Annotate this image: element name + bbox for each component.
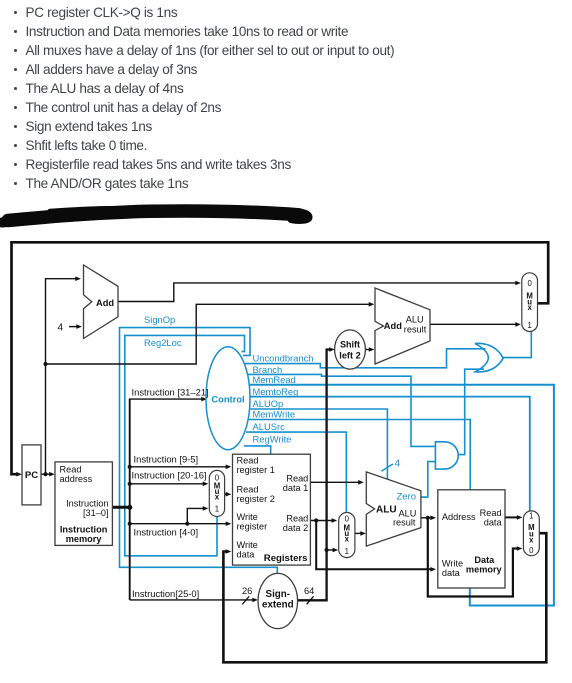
svg-text:ALU: ALU — [376, 504, 397, 515]
svg-text:result: result — [404, 324, 427, 334]
svg-text:1: 1 — [529, 512, 533, 521]
wire ALU result to Data memory Address — [421, 517, 431, 519]
svg-text:memory: memory — [66, 534, 103, 544]
adder Add (PC+4) — [84, 265, 119, 339]
control unit — [206, 347, 250, 450]
svg-text:Read: Read — [237, 484, 259, 494]
wire Instruction[25-0] to Sign-extend — [130, 599, 254, 601]
mux ALUSrc — [339, 513, 355, 558]
instruction memory — [55, 462, 112, 546]
svg-text:Registers: Registers — [264, 553, 308, 564]
register PC — [22, 445, 41, 505]
svg-text:Read: Read — [60, 464, 82, 474]
wire Uncondbranch to OR gate — [242, 349, 486, 368]
svg-text:Read: Read — [480, 508, 502, 518]
svg-text:Write: Write — [237, 512, 258, 522]
svg-text:extend: extend — [262, 600, 294, 611]
svg-text:register 2: register 2 — [237, 494, 275, 504]
register file Registers — [233, 454, 311, 565]
wire PC feedback from top mux around top to PC — [12, 242, 549, 474]
wire bottom mux output wrap to Write data of Registers — [223, 533, 546, 662]
wire Read data 2 to ALU mux input 0 — [310, 520, 332, 522]
svg-text:MemRead: MemRead — [253, 374, 296, 385]
svg-text:Read: Read — [286, 473, 308, 483]
sign extend — [258, 573, 298, 628]
wire PC to Read address — [41, 473, 50, 475]
svg-text:data: data — [237, 550, 256, 560]
svg-text:register: register — [237, 522, 268, 532]
svg-text:Write: Write — [442, 558, 463, 568]
mux Reg2Loc (register input) — [209, 470, 224, 516]
wire Zero to AND gate input — [421, 462, 435, 498]
svg-text:Instruction[25-0]: Instruction[25-0] — [132, 588, 199, 599]
wire Shift left 2 output to branch adder — [365, 349, 370, 351]
svg-text:26: 26 — [242, 586, 252, 596]
wire branch adder result to top mux input 1 — [430, 323, 516, 325]
wire Reg2Loc from Control to register mux select — [125, 335, 245, 555]
svg-text:0: 0 — [527, 279, 532, 288]
svg-text:Zero: Zero — [397, 492, 417, 503]
svg-text:register 1: register 1 — [237, 465, 275, 475]
svg-text:Instruction: Instruction — [60, 525, 108, 535]
bus slash 26 — [242, 596, 249, 604]
wire Instruction memory output — [112, 506, 129, 509]
svg-text:0: 0 — [345, 515, 350, 524]
adder Add (branch target) — [375, 288, 430, 364]
svg-text:Instruction [31–21]: Instruction [31–21] — [132, 387, 209, 398]
svg-text:Uncondbranch: Uncondbranch — [253, 353, 314, 364]
wire Data memory Read data to bottom mux input 1 — [505, 516, 518, 518]
svg-text:1: 1 — [215, 505, 219, 514]
mux MemtoReg (bottom right) — [523, 511, 539, 556]
wire SignOp from Control to Sign-extend — [120, 328, 278, 574]
svg-text:data 2: data 2 — [283, 523, 309, 533]
wire ALUOp to ALU — [247, 409, 387, 479]
svg-text:Shift: Shift — [340, 340, 360, 350]
wire ALUSrc to ALU mux select — [246, 432, 346, 513]
shift left 2 — [335, 330, 366, 369]
svg-text:Reg2Loc: Reg2Loc — [144, 337, 182, 348]
svg-text:[31–0]: [31–0] — [83, 508, 109, 518]
svg-text:Instruction [20-16]: Instruction [20-16] — [132, 469, 207, 480]
bus slash ALUOp 4 — [381, 464, 393, 471]
svg-text:1: 1 — [345, 547, 349, 556]
svg-text:x: x — [527, 303, 532, 312]
svg-text:SignOp: SignOp — [144, 314, 175, 325]
wire constant 4 into Add — [69, 326, 77, 328]
svg-text:Control: Control — [211, 393, 244, 404]
wire Read data 2 to Data memory Write data — [316, 521, 431, 570]
redaction scribble — [2, 207, 309, 223]
wire Branch to AND gate — [244, 374, 435, 446]
svg-text:4: 4 — [58, 323, 64, 334]
svg-text:x: x — [215, 493, 220, 502]
svg-text:result: result — [393, 518, 416, 528]
ALU — [366, 472, 421, 546]
mux PCSrc (top right) — [522, 273, 538, 332]
bus slash 64 — [307, 596, 314, 604]
svg-text:0: 0 — [529, 546, 534, 555]
wire MemtoReg to bottom mux select — [247, 397, 530, 512]
wire Instruction[4-0] to Write register — [130, 523, 227, 525]
svg-text:4: 4 — [395, 459, 401, 470]
svg-text:ALUOp: ALUOp — [253, 398, 284, 409]
wire register mux output to Read register 2 — [225, 493, 227, 495]
wire Instruction[4-0] branch to register mux input 1 — [187, 508, 203, 523]
wire PC up to Add and branch adder — [46, 279, 77, 475]
wire sign-extended branch to ALU mux input 1 — [327, 549, 334, 551]
svg-text:Sign-: Sign- — [266, 589, 291, 600]
svg-text:MemWrite: MemWrite — [253, 409, 296, 420]
svg-text:data 1: data 1 — [283, 483, 309, 493]
AND gate — [435, 442, 458, 469]
svg-text:PC: PC — [25, 470, 38, 481]
wire AND output to OR gate input — [459, 369, 484, 454]
svg-text:Read: Read — [237, 455, 259, 465]
svg-text:ALUSrc: ALUSrc — [253, 421, 286, 432]
svg-text:Add: Add — [384, 321, 402, 331]
svg-text:Instruction: Instruction — [66, 498, 108, 508]
svg-text:Write: Write — [237, 540, 258, 550]
wire MemRead to Data memory bottom — [246, 385, 554, 606]
svg-text:Instruction [4-0]: Instruction [4-0] — [134, 527, 199, 538]
svg-text:address: address — [60, 474, 93, 484]
svg-text:data: data — [442, 568, 461, 578]
data memory — [438, 490, 505, 588]
svg-text:Branch: Branch — [253, 364, 283, 375]
wire PC value to branch adder — [46, 304, 370, 364]
wire MemWrite to Data memory top — [247, 420, 470, 491]
svg-text:MemtoReg: MemtoReg — [253, 386, 299, 397]
wire Instruction[9-5] to Read register 1 — [130, 466, 227, 468]
svg-text:x: x — [529, 536, 534, 545]
svg-text:ALU: ALU — [406, 315, 424, 325]
svg-text:RegWrite: RegWrite — [253, 434, 292, 445]
svg-text:Address: Address — [442, 512, 476, 522]
svg-text:left 2: left 2 — [339, 351, 360, 361]
OR gate — [475, 343, 503, 372]
wire ALU result bypass to bottom mux input 0 — [428, 518, 518, 597]
svg-text:x: x — [345, 535, 350, 544]
svg-text:data: data — [484, 518, 503, 528]
svg-text:memory: memory — [466, 565, 503, 575]
wire RegWrite to Registers top — [244, 446, 271, 454]
wire Sign-extend output up to Shift left 2 — [297, 350, 330, 601]
svg-text:Instruction [9-5]: Instruction [9-5] — [134, 454, 199, 465]
wire ALU mux output to ALU — [355, 532, 362, 534]
wire OR output to top mux select — [502, 332, 531, 358]
svg-text:Add: Add — [96, 298, 114, 308]
wire Instruction[31-21] to Control — [129, 398, 202, 400]
wire Instruction[20-16] to register mux input 0 — [130, 483, 204, 485]
svg-text:64: 64 — [304, 586, 314, 596]
wire instruction bus vertical — [129, 399, 131, 600]
wire Read data 1 to ALU — [310, 481, 359, 483]
wire Add (PC+4) output to top mux input 0 — [118, 283, 516, 302]
svg-text:1: 1 — [527, 321, 531, 330]
svg-text:Read: Read — [286, 513, 308, 523]
